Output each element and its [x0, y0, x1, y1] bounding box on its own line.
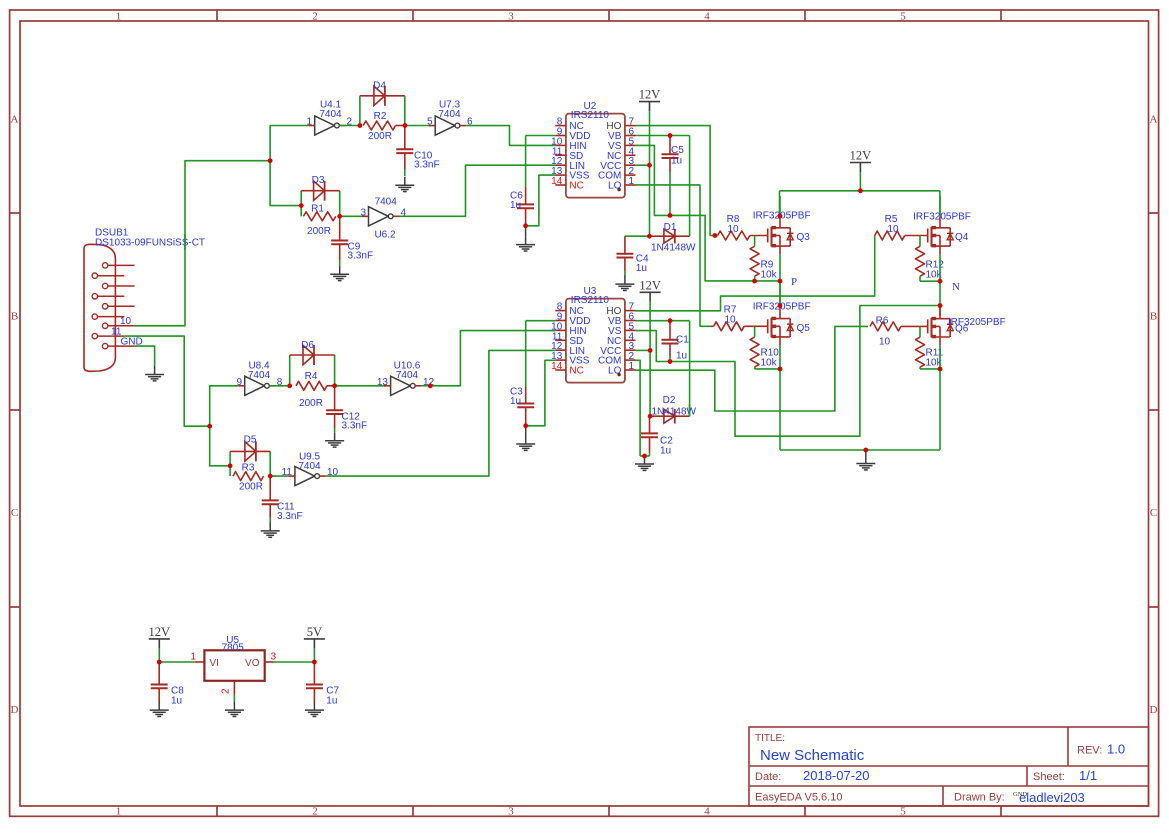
- svg-text:GND: GND: [1013, 791, 1027, 798]
- svg-text:B: B: [1150, 311, 1157, 323]
- svg-text:14: 14: [551, 361, 563, 372]
- svg-text:14: 14: [551, 176, 563, 187]
- svg-text:1u: 1u: [510, 396, 521, 407]
- svg-text:D5: D5: [244, 435, 257, 446]
- svg-text:3: 3: [508, 806, 514, 818]
- svg-text:R3: R3: [242, 462, 255, 473]
- svg-text:1u: 1u: [676, 351, 687, 362]
- svg-text:U6.2: U6.2: [374, 230, 396, 241]
- svg-text:10k: 10k: [761, 357, 778, 368]
- svg-text:10: 10: [724, 315, 736, 326]
- svg-text:5: 5: [427, 117, 433, 128]
- svg-text:Q6: Q6: [955, 323, 969, 334]
- svg-text:A: A: [1150, 114, 1158, 126]
- svg-text:7404: 7404: [375, 197, 398, 208]
- svg-text:7404: 7404: [438, 109, 461, 120]
- svg-text:7404: 7404: [248, 370, 271, 381]
- svg-text:5V: 5V: [307, 625, 322, 639]
- svg-text:1: 1: [116, 806, 122, 818]
- svg-text:REV:: REV:: [1077, 745, 1102, 757]
- svg-text:5: 5: [900, 10, 906, 22]
- svg-text:1u: 1u: [636, 263, 647, 274]
- svg-text:12V: 12V: [149, 625, 171, 639]
- svg-text:7404: 7404: [319, 109, 342, 120]
- svg-text:IRF3205PBF: IRF3205PBF: [913, 211, 971, 222]
- svg-text:VI: VI: [210, 658, 219, 669]
- svg-text:9: 9: [236, 377, 242, 388]
- svg-text:12V: 12V: [639, 88, 661, 102]
- svg-text:2: 2: [312, 10, 318, 22]
- svg-text:7404: 7404: [298, 461, 321, 472]
- svg-text:N: N: [952, 281, 960, 293]
- svg-text:10: 10: [120, 316, 132, 327]
- svg-text:1u: 1u: [326, 695, 337, 706]
- svg-text:200R: 200R: [239, 482, 263, 493]
- svg-text:LO: LO: [608, 366, 622, 377]
- svg-text:4: 4: [704, 806, 710, 818]
- svg-text:4: 4: [704, 10, 710, 22]
- svg-text:13: 13: [377, 377, 389, 388]
- svg-text:1.0: 1.0: [1107, 742, 1125, 757]
- svg-text:1u: 1u: [671, 155, 682, 166]
- svg-text:2: 2: [312, 806, 318, 818]
- svg-text:1: 1: [116, 10, 122, 22]
- svg-text:DS1033-09FUNSiSS-CT: DS1033-09FUNSiSS-CT: [95, 237, 205, 248]
- svg-text:12V: 12V: [639, 278, 661, 292]
- svg-text:11: 11: [282, 467, 293, 478]
- svg-text:NC: NC: [569, 366, 583, 377]
- svg-text:C: C: [1150, 507, 1157, 519]
- svg-text:3.3nF: 3.3nF: [414, 160, 440, 171]
- svg-text:3.3nF: 3.3nF: [277, 511, 303, 522]
- svg-text:1u: 1u: [660, 446, 671, 457]
- svg-text:3.3nF: 3.3nF: [342, 421, 368, 432]
- svg-text:200R: 200R: [299, 398, 323, 409]
- svg-text:C: C: [11, 507, 18, 519]
- svg-text:5: 5: [900, 806, 906, 818]
- svg-text:VO: VO: [245, 658, 260, 669]
- svg-text:eladlevi203: eladlevi203: [1019, 790, 1085, 805]
- svg-text:R1: R1: [311, 204, 324, 215]
- svg-text:New Schematic: New Schematic: [760, 747, 865, 764]
- svg-text:Q5: Q5: [797, 323, 811, 334]
- svg-text:10k: 10k: [761, 270, 778, 281]
- svg-text:3: 3: [508, 10, 514, 22]
- svg-text:3: 3: [360, 207, 366, 218]
- svg-text:10: 10: [879, 337, 891, 348]
- svg-text:TITLE:: TITLE:: [755, 733, 785, 744]
- svg-text:NC: NC: [569, 181, 583, 192]
- svg-text:1u: 1u: [510, 200, 521, 211]
- svg-text:3: 3: [271, 652, 277, 663]
- svg-text:7404: 7404: [396, 370, 419, 381]
- svg-text:10: 10: [887, 224, 899, 235]
- svg-text:1: 1: [629, 361, 635, 372]
- svg-text:3.3nF: 3.3nF: [348, 251, 374, 262]
- svg-text:200R: 200R: [307, 226, 331, 237]
- svg-text:D4: D4: [373, 81, 386, 92]
- svg-text:D: D: [1150, 704, 1158, 716]
- svg-text:2018-07-20: 2018-07-20: [803, 768, 870, 783]
- svg-text:R4: R4: [305, 371, 318, 382]
- svg-text:2: 2: [221, 688, 232, 694]
- svg-text:Date:: Date:: [755, 771, 781, 783]
- svg-text:IRS2110: IRS2110: [571, 110, 610, 121]
- svg-text:D1: D1: [664, 222, 677, 233]
- svg-text:1/1: 1/1: [1079, 768, 1097, 783]
- svg-text:1: 1: [306, 117, 312, 128]
- svg-text:Sheet:: Sheet:: [1033, 771, 1065, 783]
- svg-text:LO: LO: [608, 181, 622, 192]
- svg-text:10: 10: [727, 224, 739, 235]
- svg-text:Drawn By:: Drawn By:: [954, 792, 1005, 804]
- svg-text:C1: C1: [676, 334, 689, 345]
- svg-text:R2: R2: [374, 111, 387, 122]
- svg-text:R6: R6: [876, 316, 889, 327]
- svg-text:D: D: [11, 704, 19, 716]
- svg-text:Q4: Q4: [955, 232, 969, 243]
- svg-text:Q3: Q3: [797, 232, 811, 243]
- svg-text:B: B: [11, 311, 18, 323]
- svg-text:EasyEDA V5.6.10: EasyEDA V5.6.10: [755, 792, 842, 804]
- svg-text:1N4148W: 1N4148W: [651, 243, 696, 254]
- svg-text:D6: D6: [301, 340, 314, 351]
- svg-text:P: P: [791, 276, 797, 288]
- svg-text:200R: 200R: [368, 131, 392, 142]
- svg-text:12V: 12V: [850, 149, 872, 163]
- svg-text:D2: D2: [663, 395, 676, 406]
- svg-text:D3: D3: [312, 175, 325, 186]
- svg-text:1: 1: [629, 176, 635, 187]
- svg-text:IRS2110: IRS2110: [571, 295, 610, 306]
- svg-text:7805: 7805: [222, 642, 245, 653]
- svg-text:A: A: [11, 114, 19, 126]
- svg-text:1: 1: [190, 652, 196, 663]
- svg-text:1u: 1u: [171, 695, 182, 706]
